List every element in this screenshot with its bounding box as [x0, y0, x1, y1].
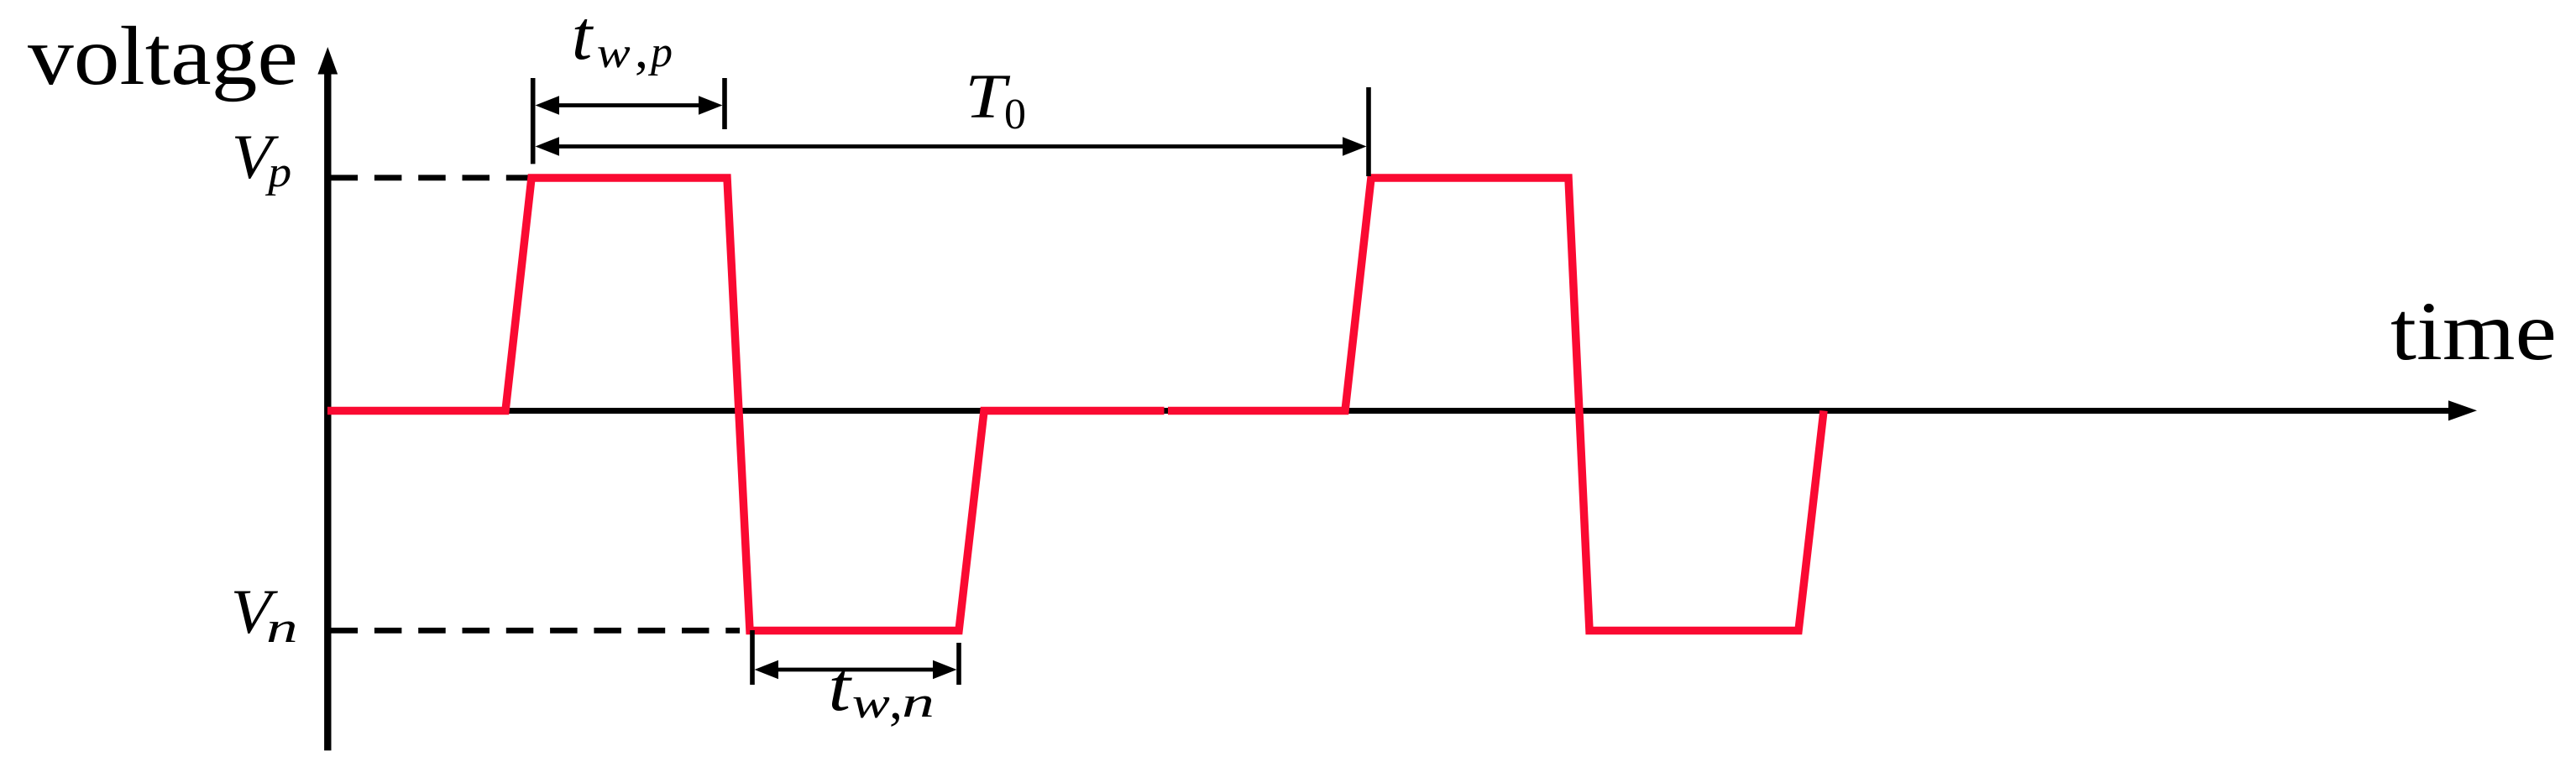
waveform period 1 (red trapezoidal pulse pair) [327, 178, 1165, 631]
svg-text:time: time [2390, 284, 2557, 378]
dashed level line Vn [331, 628, 740, 634]
t_wp right arrowhead [699, 96, 723, 115]
waveform period 2 (red trapezoidal pulse pair) [1168, 178, 1824, 631]
svg-text:,: , [635, 19, 648, 79]
T0 right arrowhead [1343, 137, 1367, 156]
tick mark right of t_wn dimension [956, 643, 961, 685]
svg-text:voltage: voltage [28, 9, 298, 102]
dimension arrow t_wp shaft [544, 103, 714, 107]
tick mark left (shared by t_wp and T0 dimensions) [531, 78, 536, 164]
x-axis arrowhead [2448, 400, 2477, 420]
x-axis (time axis) shaft [327, 408, 2452, 414]
y-axis (voltage axis) shaft [324, 67, 331, 750]
tick mark right of T0 dimension [1366, 87, 1371, 176]
svg-text:w: w [852, 679, 890, 728]
svg-text:p: p [264, 148, 291, 196]
svg-text:t: t [572, 0, 594, 75]
svg-text:0: 0 [1004, 91, 1026, 138]
svg-text:n: n [902, 679, 935, 727]
dimension arrow T0 shaft [544, 144, 1358, 149]
tick mark left of t_wn dimension [750, 630, 755, 685]
dimension arrow t_wn shaft [762, 668, 949, 672]
t_wp left arrowhead [536, 96, 560, 115]
svg-text:n: n [266, 603, 298, 652]
svg-text:p: p [647, 29, 673, 76]
svg-text:,: , [889, 670, 903, 730]
svg-text:t: t [828, 648, 852, 725]
t_wn left arrowhead [755, 660, 779, 680]
tick mark right of t_wp dimension [722, 78, 727, 129]
dashed level line Vp [331, 175, 535, 180]
svg-text:w: w [597, 29, 631, 77]
t_wn right arrowhead [933, 660, 957, 680]
T0 left arrowhead [536, 137, 560, 156]
y-axis arrowhead [317, 47, 338, 75]
